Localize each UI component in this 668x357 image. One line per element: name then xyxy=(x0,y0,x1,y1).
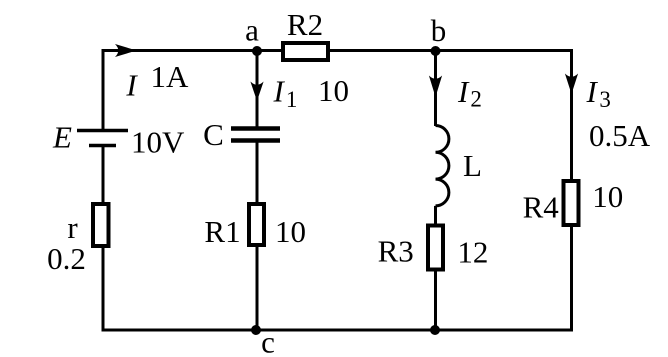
svg-text:R4: R4 xyxy=(523,190,560,225)
svg-text:10V: 10V xyxy=(131,125,185,160)
svg-text:b: b xyxy=(431,13,447,48)
svg-text:10: 10 xyxy=(275,214,306,249)
svg-text:1A: 1A xyxy=(151,59,190,94)
svg-text:E: E xyxy=(52,120,72,155)
svg-text:R2: R2 xyxy=(287,7,323,42)
svg-text:I2: I2 xyxy=(457,74,482,112)
svg-text:10: 10 xyxy=(592,179,623,214)
svg-text:0.2: 0.2 xyxy=(47,241,86,276)
svg-text:R1: R1 xyxy=(204,214,240,249)
svg-text:a: a xyxy=(245,13,259,48)
svg-text:R3: R3 xyxy=(378,234,414,269)
svg-text:12: 12 xyxy=(457,235,488,270)
svg-text:c: c xyxy=(261,325,275,357)
svg-text:10: 10 xyxy=(318,73,349,108)
svg-text:L: L xyxy=(463,148,482,183)
svg-text:C: C xyxy=(203,117,224,152)
svg-text:I1: I1 xyxy=(273,74,298,113)
svg-text:I: I xyxy=(125,68,138,103)
svg-text:0.5A: 0.5A xyxy=(589,118,651,153)
svg-text:I3: I3 xyxy=(586,74,611,112)
svg-text:r: r xyxy=(67,210,78,245)
